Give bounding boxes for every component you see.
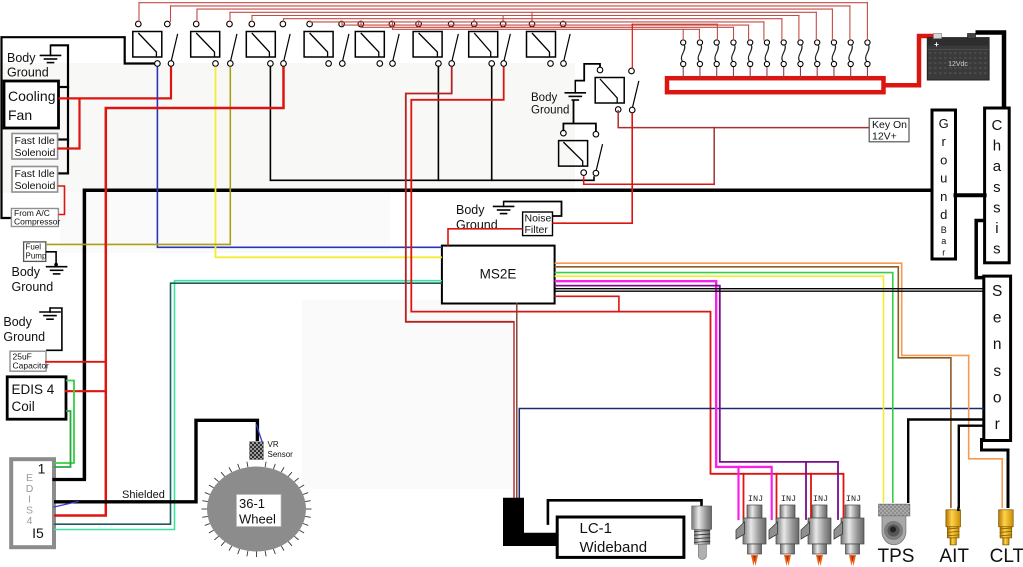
switch SW3 (relay K3 contacts) [280,21,286,27]
25uF capacitor box [10,351,46,371]
36-1 trigger wheel [207,467,306,552]
relay K6 [413,32,442,58]
wire: run to switch SW10 (black) [270,176,594,180]
feed wire from fuse to relay terminal (line 8) [342,24,749,26]
svg-text:Ground: Ground [456,218,498,232]
svg-text:o: o [993,389,1002,406]
ground symbol (relay K9/K10) [565,92,585,94]
MS2E ECU box [442,246,555,304]
svg-text:Solenoid: Solenoid [15,147,56,159]
ground symbol (center) [494,205,514,207]
svg-text:n: n [940,189,947,204]
svg-text:Wideband: Wideband [580,539,648,556]
svg-text:r: r [942,247,945,257]
svg-text:Ground: Ground [12,280,54,294]
wire: relay K6 to switch SW10 run (black) [437,67,439,181]
wire: MS2E to injectors 1-2 (magenta) [555,281,772,467]
wire: ground bus down left side (black) [51,45,69,173]
feed wire from fuse to relay terminal (line 9) [361,26,734,28]
wire: switch SW3 to EDIS coil trunk (red) [54,67,284,516]
feed stub to relay terminal [531,12,533,21]
wire: relay K3 to switch SW10 run (black) [269,67,271,181]
wire: switch SW1 to cooling fan / fast idle (red) [59,67,172,99]
wire: chassis bar to sensor bar (thick black) [976,221,984,278]
fuse F7 [783,67,785,78]
svg-text:Fast Idle: Fast Idle [15,168,55,180]
feed stub to relay terminal [473,19,475,22]
svg-text:Ground: Ground [531,105,569,117]
AIT sensor [946,510,961,527]
svg-text:Fast Idle: Fast Idle [15,135,55,147]
switch SW9 (relay K9 contacts) [629,68,635,74]
EDIS 4 coil box [7,377,66,419]
svg-text:S: S [992,283,1002,300]
svg-text:Sensor: Sensor [268,450,294,459]
wire: switch SW9 to noise filter (red) [553,113,633,223]
fuse F10 [833,67,835,78]
EDIS-4 module connector [11,459,54,547]
feed wire from fuse to relay terminal (line 2) [171,5,850,7]
switch SW6 (relay K6 contacts) [448,21,454,27]
feed wire from fuse to relay terminal (line 1) [139,2,867,4]
injector 1-2 signal drops (magenta) [737,467,739,519]
svg-text:LC-1: LC-1 [580,520,613,537]
wire: switch SW7 to injector supply (red) [411,67,843,474]
svg-text:36-1: 36-1 [239,496,265,511]
wire: EDIS coil to EDIS module pin (green 1) [54,381,74,464]
wire: center ground to noise filter (black) [504,202,562,217]
svg-text:MS2E: MS2E [480,267,517,282]
fuse F11 [850,67,852,78]
wire: key-on branch down (dark red) [713,128,715,185]
wire: main ground run to ground bar (thick black) [84,190,932,479]
svg-text:1: 1 [38,461,46,477]
wire: switch SW2 to fuel pump (olive) [46,67,231,245]
svg-text:Ground: Ground [7,66,49,80]
wire: switch SW6 to LC-1 feed (red) [406,67,514,322]
wire: fuse bus to battery + (thick red) [884,36,936,85]
relay K10 (center lower) [559,141,588,167]
svg-text:B: B [941,225,947,235]
svg-text:s: s [993,199,1001,216]
relay K3 [246,32,275,58]
wire: sensor bar to CLT ground (thick black) [982,438,1009,508]
svg-text:s: s [993,241,1001,258]
svg-text:G: G [939,116,949,131]
wire: MS2E to CLT (orange) [555,263,1003,508]
feed wire from fuse to relay terminal (line 4) [230,11,816,13]
svg-text:r: r [942,134,947,149]
fuse F6 [766,67,768,78]
fuel pump box [24,242,46,262]
fuse F9 [816,67,818,78]
svg-text:Cooling: Cooling [8,88,55,104]
svg-text:Coil: Coil [12,399,35,414]
feed wire from fuse F3 to switch SW9 [632,23,717,25]
wire: noise filter to MS2E (red) [448,229,523,246]
svg-text:INJ: INJ [781,494,796,504]
wire: trunk branch to 25uF capacitor (red) [46,361,106,363]
feed stub to relay terminal [450,20,452,23]
fuse F2 [699,67,701,78]
svg-text:a: a [993,158,1002,175]
wire: MS2E 12V feed (red) [555,296,619,311]
injector 3-4 signal drops (purple) [805,462,807,519]
wire: relay K2 to MS2E (yellow) [216,67,442,258]
svg-text:Body: Body [3,315,32,329]
svg-text:INJ: INJ [748,494,763,504]
svg-text:Fuel: Fuel [26,243,42,252]
wire: relay K1 to MS2E (blue) [157,67,442,248]
cooling fan box [4,81,59,128]
fuse F8 [799,67,801,78]
svg-text:a: a [941,236,946,246]
feed wire from fuse to relay terminal (line 10) [393,28,700,30]
svg-text:u: u [940,171,947,186]
wire: relay K10 output to key-on branch (red) [584,176,714,184]
sensor ground bar [984,276,1011,440]
svg-text:o: o [940,152,947,167]
svg-text:Shielded: Shielded [122,489,165,501]
wire: VR sensor signal (blue) [54,502,78,508]
svg-text:TPS: TPS [878,546,915,567]
svg-text:VR: VR [268,440,279,449]
switch SW2 (relay K2 contacts) [227,21,233,27]
wire: MS2E sensor ground cable (black pair) [555,288,984,290]
key on 12V+ box [869,118,909,142]
wire: MS2E to TPS (green) [555,273,893,503]
switch SW10 (relay K10 contacts) [593,131,599,137]
LC-1 wideband box [557,517,684,557]
CLT sensor [999,510,1014,527]
feed wire from fuse to relay terminal (line 7) [310,21,764,23]
wire: fuel pump to ground (black) [46,252,56,265]
svg-text:12Vdc: 12Vdc [948,61,968,68]
svg-text:Compressor: Compressor [14,217,60,227]
wire: capacitor to ground (black) [46,308,62,350]
svg-text:Solenoid: Solenoid [15,180,56,192]
wire: MS2E to EDIS (dark teal) [54,283,442,524]
svg-text:Body: Body [456,203,485,217]
TPS sensor [879,504,910,516]
wire: MS2E to AIT (brown) [555,267,951,508]
wire: MS2E to EDIS (mint green) [54,281,442,530]
LC-1 cable bundle (thick black) [503,498,557,546]
relay K9 (center upper) [595,78,624,104]
switch SW8 (relay K8 contacts) [560,21,566,27]
wire: A/C compressor to relay K1 (black, around top-left) [2,37,155,218]
svg-text:Body: Body [531,92,557,104]
wire: MS2E to TPS (yellow) [555,276,884,503]
svg-text:AIT: AIT [939,546,969,567]
svg-text:INJ: INJ [813,494,828,504]
svg-text:12V+: 12V+ [872,131,897,143]
fuse F4 [732,67,734,78]
wire: sensor bar to TPS (black) [908,420,984,504]
wire: LC-1 to O2 sensor (black) [548,500,702,525]
svg-text:s: s [993,363,1001,380]
svg-text:INJ: INJ [846,494,861,504]
svg-text:Capacitor: Capacitor [13,361,50,371]
feed wire from fuse to relay terminal (line 5) [252,15,799,17]
fuse F12 [866,67,868,78]
relay K5 [355,32,384,58]
svg-text:s: s [993,179,1001,196]
wire: relay K9 to key-on 12V (dark red) [618,110,869,128]
switch SW4 (relay K4 contacts) [339,21,345,27]
svg-text:Wheel: Wheel [239,512,276,527]
ground symbol (capacitor) [40,311,60,313]
svg-text:Key On: Key On [872,119,907,131]
fuse F5 [749,67,751,78]
battery BT1 [927,38,989,80]
feed stub to relay terminal [502,16,504,22]
wire: trunk branch to EDIS coil (red) [66,390,106,392]
relay K1 [133,32,162,58]
relay K8 [527,32,556,58]
relay K4 [304,32,333,58]
wire: ground to relay K10 and switch SW10 (black) [563,101,573,132]
relay K2 [191,32,220,58]
wire: chassis bar to ground bar (thick black) [956,193,985,197]
ground symbol (fuel pump) [47,266,67,268]
svg-text:Body: Body [7,51,36,65]
svg-text:CLT: CLT [990,546,1023,567]
wire: battery - to chassis (thick black) [976,33,1005,107]
switch SW7 (relay K7 contacts) [500,21,506,27]
wire: MS2E to injectors 3-4 (purple) [555,286,838,462]
svg-text:Ground: Ground [3,330,45,344]
fuse F1 [682,67,684,78]
noise filter box [523,212,553,236]
svg-text:Body: Body [12,265,41,279]
from A/C compressor box [11,209,58,227]
svg-text:+: + [934,40,939,49]
wire: fast idle solenoid 2 to A/C compressor (red) [58,186,65,215]
svg-text:n: n [993,336,1002,353]
svg-text:Filter: Filter [525,224,549,236]
switch SW5 (relay K5 contacts) [389,21,395,27]
ground bar [932,110,956,259]
injector supply drops (red) [743,474,745,519]
svg-text:I5: I5 [32,525,44,541]
fast idle solenoid 1 box [12,134,58,160]
ground symbol (top left) [41,54,61,56]
fast idle solenoid 2 box [12,167,58,193]
chassis bar [985,108,1010,263]
wire: switch SW6 run to LC-1 (red) [513,322,515,498]
feed stub to relay terminal [418,21,420,25]
wire: ground to relay K9 coil (black) [575,64,600,81]
wire: sensor bar to AIT (black) [959,426,984,508]
svg-text:Fan: Fan [8,107,32,123]
wire: EDIS VR shielded cable (thick black) [54,420,257,502]
svg-text:Noise: Noise [525,213,552,225]
wire: relay K7 to switch SW10 run (black) [491,67,493,181]
switch SW1 (relay K1 contacts) [165,21,171,27]
fuse F3 [716,67,718,78]
svg-text:e: e [993,310,1002,327]
svg-text:C: C [991,117,1002,134]
svg-text:EDIS 4: EDIS 4 [12,382,55,397]
wire: AIT ground stub (black) [957,508,959,510]
wire: EDIS coil to EDIS module pin (green 2) [54,411,71,467]
svg-text:i: i [995,220,998,237]
wire: MS2E to LC-1 (dark red) [516,304,518,499]
feed wire branch to fuse F1 [682,29,684,40]
svg-text:Pump: Pump [26,252,47,261]
svg-text:h: h [993,138,1001,155]
feed wire from fuse to relay terminal (line 3) [197,8,832,10]
feed wire from fuse to relay terminal (line 6) [284,18,782,20]
svg-text:r: r [995,416,1000,433]
VR sensor [250,442,264,460]
wire: LC-1 analog ground to sensor bar (blue/navy) [519,409,984,499]
fuse block bus bar [667,78,884,92]
svg-text:d: d [940,207,947,222]
relay K7 [469,32,498,58]
